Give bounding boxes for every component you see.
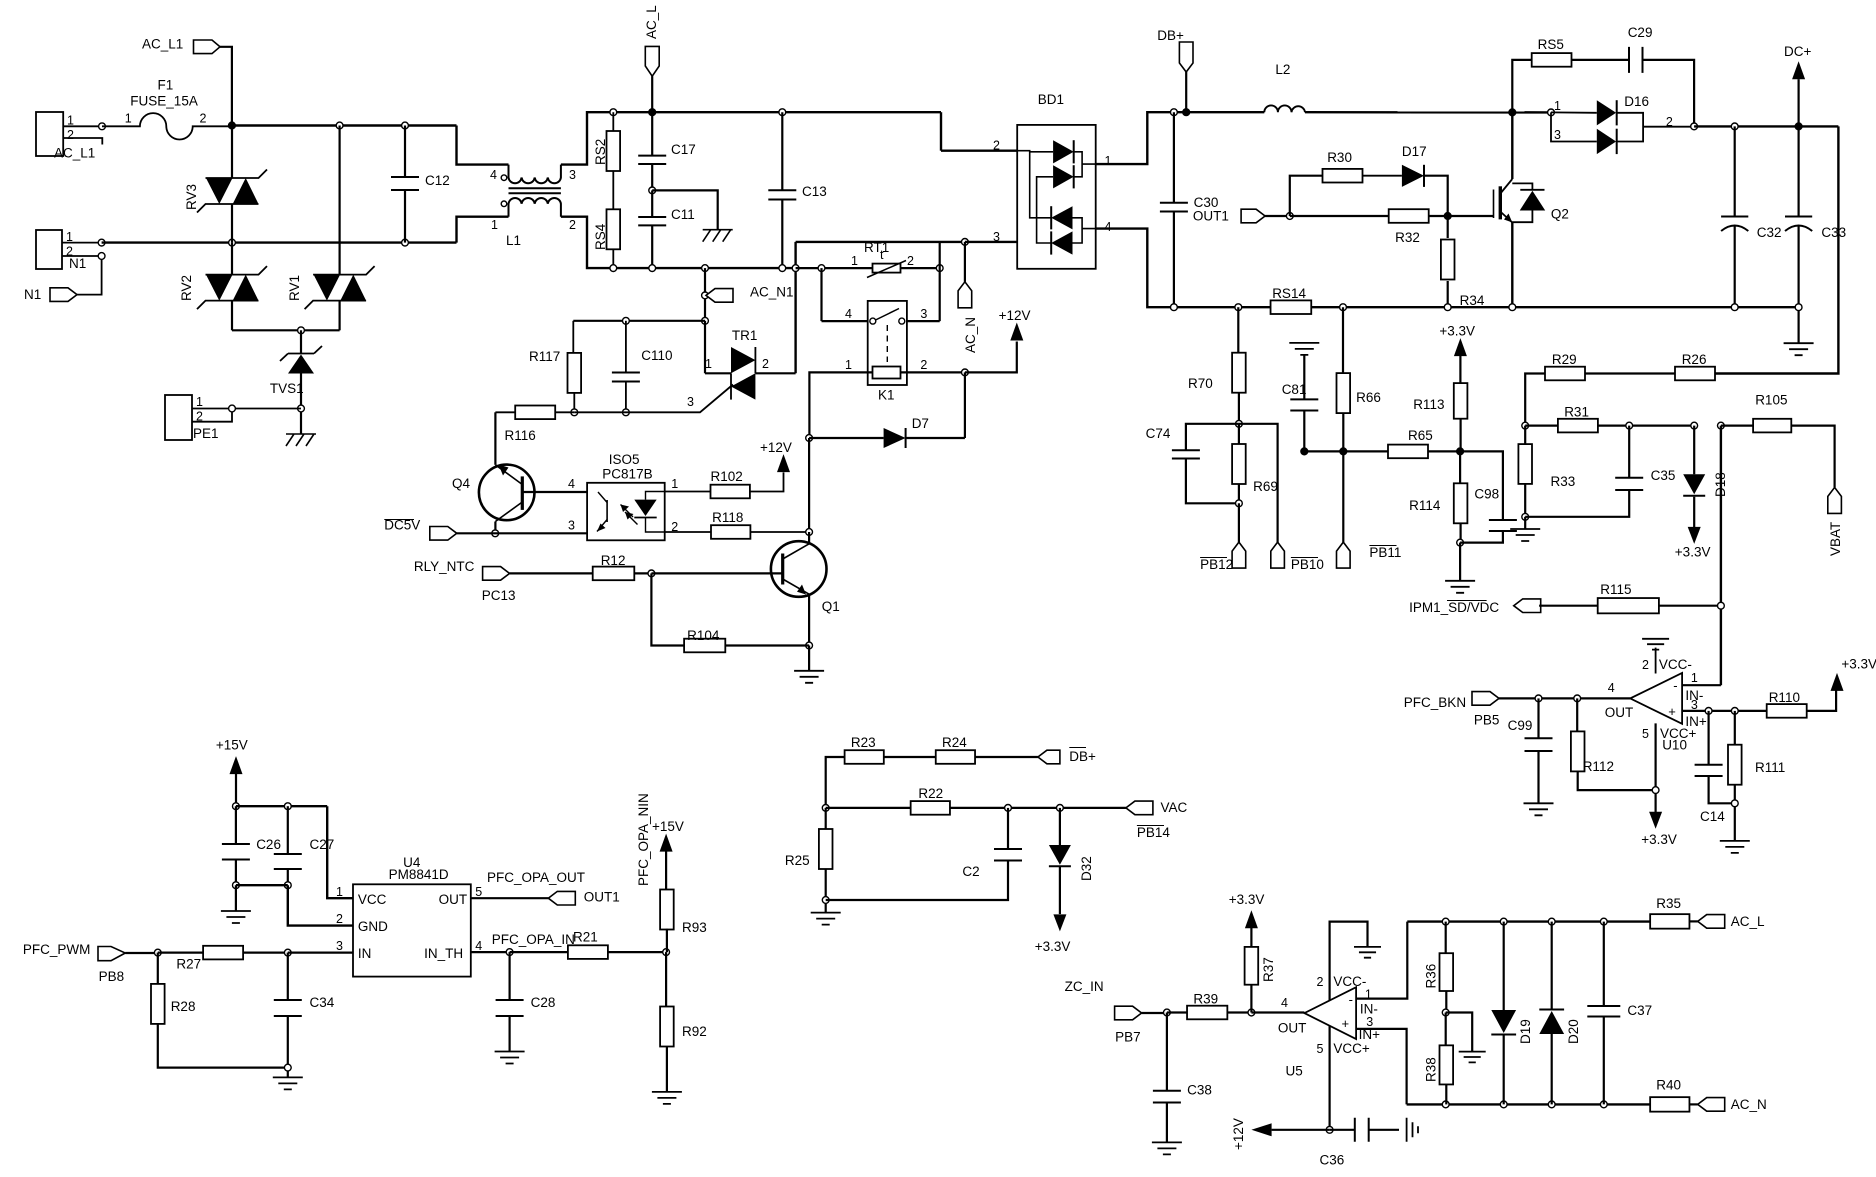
svg-text:5: 5 — [475, 885, 482, 899]
svg-text:R23: R23 — [851, 735, 876, 750]
junction VCC+/R112 — [1652, 787, 1659, 794]
wire C81 bottom — [1303, 411, 1305, 452]
junction C110 bottom — [623, 409, 630, 416]
wire C29 to DC+ rail — [1643, 60, 1695, 127]
wire TR1 pin1 — [705, 372, 731, 374]
junction R111/C14 — [1731, 800, 1738, 807]
junction C33/rail — [1795, 304, 1802, 311]
svg-text:OUT: OUT — [1605, 705, 1634, 720]
svg-text:+15V: +15V — [652, 819, 684, 834]
junction D18 top — [1691, 422, 1698, 429]
wire C26 to ground — [235, 885, 237, 911]
svg-text:VCC+: VCC+ — [1333, 1041, 1370, 1056]
ground C26 — [221, 911, 251, 923]
svg-text:OUT1: OUT1 — [584, 890, 620, 905]
wire +12V to VCC+ — [1272, 1129, 1330, 1131]
svg-text:R32: R32 — [1395, 230, 1420, 245]
earth ground — [286, 434, 316, 446]
wire DC+ rail — [1694, 125, 1838, 127]
wire to L1 pin4 — [457, 126, 509, 165]
resistor R110 — [1767, 704, 1807, 718]
wire DC+ to R26 — [1715, 126, 1839, 373]
flag VBAT — [1828, 487, 1842, 513]
resistor R34 — [1447, 216, 1449, 238]
svg-text:R31: R31 — [1564, 405, 1589, 420]
power flag AC_L1 (top) — [194, 40, 221, 54]
svg-text:C38: C38 — [1187, 1083, 1212, 1098]
resistor R12 — [510, 572, 593, 574]
capacitor C37 — [1603, 922, 1605, 1006]
junction C28/R21 — [506, 949, 513, 956]
svg-text:AC_L1: AC_L1 — [142, 37, 183, 52]
wire to ground — [1459, 543, 1461, 581]
wire to L1 pin1 — [457, 217, 509, 243]
wire RV3 bottom — [231, 204, 233, 243]
wire TVS1 to earth — [300, 374, 302, 435]
wire to RV2 — [231, 243, 233, 275]
junction DB+ — [1183, 109, 1190, 116]
svg-text:C99: C99 — [1508, 718, 1533, 733]
+12V arrow R102 — [777, 454, 790, 472]
resistor R39 — [1167, 1011, 1187, 1013]
IC U4 PM8841D — [353, 884, 471, 976]
ground R114 — [1445, 581, 1475, 593]
ground C33 — [1784, 343, 1814, 355]
wire connector pin1 to fuse — [63, 125, 102, 127]
svg-text:2: 2 — [569, 218, 576, 232]
wire AC_N1 branch — [704, 268, 706, 321]
diode BD1-d — [1051, 231, 1072, 254]
ground U5 VCC- — [1354, 947, 1381, 958]
svg-text:2: 2 — [336, 912, 343, 926]
wire Q4 collector — [494, 522, 496, 534]
flag AC_N — [958, 282, 972, 308]
svg-text:AC_L1: AC_L1 — [54, 146, 95, 161]
svg-text:4: 4 — [475, 939, 482, 953]
svg-text:RLY_NTC: RLY_NTC — [414, 559, 475, 574]
wire to earth — [652, 190, 718, 229]
svg-text:DB+: DB+ — [1069, 749, 1096, 764]
svg-text:1: 1 — [1105, 154, 1112, 168]
power flag AC_N1 — [706, 289, 733, 303]
junction N1 pin2 — [98, 253, 105, 260]
junction R66 top — [1340, 304, 1347, 311]
svg-text:1: 1 — [125, 112, 132, 126]
svg-text:RS4: RS4 — [593, 223, 608, 250]
junction C17/C11 — [649, 187, 656, 194]
wire U10 pin3 IN+ — [1682, 710, 1767, 712]
resistor R92 — [665, 952, 667, 1006]
svg-text:4: 4 — [1281, 996, 1288, 1010]
wire to Q1 base — [651, 572, 781, 574]
svg-text:AC_N: AC_N — [963, 317, 978, 353]
junction R115/IN- — [1718, 602, 1725, 609]
junction R114/C98 bottom — [1457, 539, 1464, 546]
wire U4 IN_TH — [471, 951, 510, 953]
+3.3V arrow down U10 — [1649, 812, 1662, 829]
wire U4 OUT — [471, 897, 549, 899]
svg-text:+12V: +12V — [999, 308, 1031, 323]
resistor R30 — [1290, 176, 1322, 216]
svg-text:3: 3 — [336, 939, 343, 953]
resistor R117 — [572, 321, 574, 353]
ground R33 — [1510, 529, 1540, 541]
svg-text:4: 4 — [568, 477, 575, 491]
flag PB12 — [1232, 542, 1246, 568]
svg-text:C35: C35 — [1651, 468, 1676, 483]
junction C11 bottom — [649, 265, 656, 272]
junction R36 top — [1442, 918, 1449, 925]
resistor R70 — [1237, 307, 1239, 352]
wire to D7 — [964, 372, 966, 438]
svg-text:R38: R38 — [1424, 1057, 1439, 1082]
svg-text:2: 2 — [200, 112, 207, 126]
wire to RV3 — [231, 126, 233, 179]
junction C27 top — [284, 803, 291, 810]
svg-text:RS5: RS5 — [1538, 37, 1564, 52]
resistor R21 — [510, 951, 568, 953]
svg-text:2: 2 — [1317, 975, 1324, 989]
optocoupler ISO5 PC817B — [587, 483, 665, 541]
svg-text:R33: R33 — [1551, 474, 1576, 489]
svg-text:TVS1: TVS1 — [270, 381, 304, 396]
wire connector pin2 stub — [63, 138, 102, 145]
wire BD1 pin3 — [965, 241, 1037, 243]
junction C32 top — [1731, 123, 1738, 130]
wire Q2 emitter — [1511, 223, 1513, 308]
flag AC_L — [1698, 915, 1725, 929]
wire to PB11 — [1342, 451, 1344, 542]
junction R34 bottom — [1444, 304, 1451, 311]
svg-text:+12V: +12V — [760, 440, 792, 455]
+3.3V arrow down D32 — [1053, 914, 1066, 931]
junction C29/D16 out — [1691, 123, 1698, 130]
diode D32 — [1059, 808, 1061, 845]
svg-text:R112: R112 — [1583, 759, 1614, 774]
svg-text:PB11: PB11 — [1369, 545, 1401, 560]
wire top rail to BD1 pin2 — [940, 112, 942, 151]
wire RS5 to C29 — [1572, 59, 1630, 61]
junction C81/R65 line — [1301, 448, 1308, 455]
junction R36/R38 — [1442, 1009, 1449, 1016]
junction C37 bottom — [1600, 1101, 1607, 1108]
wire BD1 pin4 / bottom DC rail — [1096, 229, 1799, 308]
svg-text:-: - — [1673, 678, 1677, 693]
svg-text:R27: R27 — [176, 957, 201, 972]
svg-text:2: 2 — [762, 357, 769, 371]
svg-text:R69: R69 — [1253, 479, 1278, 494]
junction R70 top — [1235, 304, 1242, 311]
svg-text:5: 5 — [1642, 727, 1649, 741]
inductor L2 — [1264, 105, 1305, 112]
svg-text:3: 3 — [1554, 128, 1561, 142]
junction C12 bottom — [402, 239, 409, 246]
junction AC_L1 node — [229, 122, 236, 129]
svg-text:AC_L: AC_L — [1731, 914, 1765, 929]
svg-text:2: 2 — [1666, 115, 1673, 129]
svg-text:K1: K1 — [878, 388, 895, 403]
wire U5 pin1 IN- — [1356, 922, 1407, 999]
+12V arrow — [1010, 323, 1023, 341]
svg-text:5: 5 — [1317, 1042, 1324, 1056]
svg-text:PB12: PB12 — [1200, 557, 1233, 572]
resistor R36 — [1445, 922, 1447, 954]
svg-text:C81: C81 — [1282, 382, 1307, 397]
resistor R40 — [1650, 1097, 1689, 1112]
top rail AC sense — [1407, 920, 1650, 922]
capacitor C38 — [1166, 1013, 1168, 1091]
svg-text:+: + — [1668, 704, 1676, 719]
flag OUT1 — [1241, 209, 1265, 223]
svg-text:OUT1: OUT1 — [1193, 209, 1229, 224]
wire DB+ stem — [1185, 72, 1187, 112]
flag PB11 — [1337, 542, 1351, 568]
svg-text:R110: R110 — [1769, 690, 1800, 705]
flag AC_N — [1698, 1098, 1725, 1112]
wire AC_L1 flag to node — [220, 47, 232, 126]
svg-text:F1: F1 — [158, 78, 174, 93]
svg-text:2: 2 — [907, 254, 914, 268]
svg-text:C33: C33 — [1821, 225, 1846, 240]
svg-text:VCC-: VCC- — [1333, 974, 1366, 989]
junction R69 bottom — [1236, 500, 1243, 507]
connector PE1 (J) — [165, 395, 192, 440]
connector AC_L1 (J) — [36, 112, 63, 156]
svg-text:C36: C36 — [1320, 1153, 1345, 1168]
svg-text:PFC_PWM: PFC_PWM — [23, 942, 91, 957]
svg-text:2: 2 — [1642, 658, 1649, 672]
wire C81 top — [1303, 355, 1305, 399]
wire RS2-RS4 — [612, 171, 614, 210]
svg-text:C32: C32 — [1757, 225, 1782, 240]
svg-text:PM8841D: PM8841D — [389, 867, 449, 882]
svg-text:VCC-: VCC- — [1659, 657, 1692, 672]
diode D17 — [1402, 165, 1424, 187]
svg-text:+3.3V: +3.3V — [1675, 545, 1711, 560]
power +3.3V (R110) — [1807, 689, 1836, 711]
wire Q4 base to ISO5 pin4 — [522, 491, 587, 493]
wire RV1 bottom — [339, 301, 341, 331]
svg-text:R12: R12 — [601, 553, 626, 568]
junction R31 left — [1522, 422, 1529, 429]
svg-text:1: 1 — [336, 885, 343, 899]
wire Q1 to ground — [808, 646, 810, 671]
junction R37 — [1248, 1009, 1255, 1016]
triac TR1 — [731, 347, 755, 373]
svg-text:R104: R104 — [687, 628, 720, 643]
wire N1 pin2 to flag — [62, 256, 102, 295]
wire PE1 pin1 to TVS1 — [192, 408, 301, 410]
wire ZC_IN — [1142, 1012, 1167, 1014]
wire R116 to Q4 emitter — [494, 412, 496, 465]
svg-text:RS14: RS14 — [1272, 286, 1306, 301]
capacitor C98 — [1460, 451, 1503, 520]
flag PB10 — [1271, 542, 1285, 568]
svg-text:4: 4 — [1105, 220, 1112, 234]
wire U10 output — [1499, 697, 1630, 699]
junction Q4/DC5V — [492, 530, 499, 537]
svg-text:IN: IN — [358, 946, 372, 961]
ground C81 — [1289, 343, 1319, 355]
flag DB+ — [1179, 42, 1193, 72]
svg-text:Q1: Q1 — [822, 599, 840, 614]
svg-text:+3.3V: +3.3V — [1035, 939, 1071, 954]
wire TR1 pin2 vertical — [794, 242, 796, 373]
capacitor C2 — [1007, 808, 1009, 849]
junction R93/R92/R21 — [663, 949, 670, 956]
svg-text:-: - — [1349, 992, 1353, 1007]
wire N1 pin1 — [62, 242, 102, 244]
junction R105/IN- node — [1718, 422, 1725, 429]
svg-text:1: 1 — [1691, 671, 1698, 685]
svg-text:VAC: VAC — [1161, 800, 1188, 815]
svg-text:+3.3V: +3.3V — [1641, 832, 1677, 847]
wire to PB12 — [1238, 503, 1240, 542]
body diode Q2 — [1512, 183, 1544, 222]
transistor Q4 — [479, 465, 535, 521]
svg-text:Q2: Q2 — [1551, 207, 1569, 222]
wire RV2 bottom — [231, 301, 233, 331]
svg-text:R111: R111 — [1755, 760, 1785, 775]
resistor R35 — [1650, 914, 1689, 929]
junction R70/C74/R69 — [1236, 420, 1243, 427]
wire U5 VCC- to ground — [1330, 922, 1368, 1000]
relay K1 — [868, 301, 907, 385]
junction C13 top — [779, 109, 786, 116]
wire Q1 collector — [808, 532, 810, 544]
junction C26 top — [233, 803, 240, 810]
ground C38 — [1152, 1142, 1182, 1154]
svg-text:3: 3 — [920, 307, 927, 321]
svg-text:D17: D17 — [1402, 144, 1427, 159]
capacitor C36 — [1330, 1129, 1355, 1131]
svg-text:AC_L: AC_L — [644, 5, 659, 39]
svg-text:D19: D19 — [1518, 1019, 1533, 1044]
svg-text:IPM1_SD/VDC: IPM1_SD/VDC — [1409, 600, 1499, 615]
ISO5 internals — [606, 500, 608, 522]
junction DC+ — [1795, 123, 1802, 130]
resistor R27 — [158, 951, 203, 953]
wire D17 to gate node — [1424, 176, 1448, 216]
svg-text:1: 1 — [671, 477, 678, 491]
junction RV1 top — [336, 122, 343, 129]
wire IN- node vertical — [1720, 426, 1722, 686]
svg-text:C12: C12 — [425, 173, 450, 188]
svg-text:C14: C14 — [1700, 809, 1725, 824]
svg-text:1: 1 — [851, 254, 858, 268]
junction D7 anode — [806, 435, 813, 442]
junction C14 — [1705, 708, 1712, 715]
svg-text:RV1: RV1 — [287, 275, 302, 301]
svg-text:R28: R28 — [171, 999, 196, 1014]
junction RS5/Q2 — [1509, 109, 1516, 116]
resistor R113 — [1454, 383, 1468, 419]
svg-text:R40: R40 — [1656, 1078, 1681, 1093]
wire R40 to flag — [1689, 1103, 1697, 1105]
wire U10 VCC+ to +3.3V — [1654, 723, 1656, 813]
wire flag to R115 — [1539, 605, 1598, 607]
svg-text:1: 1 — [705, 357, 712, 371]
junction C26 bottom — [233, 882, 240, 889]
junction C37 top — [1600, 918, 1607, 925]
svg-text:2: 2 — [920, 358, 927, 372]
capacitor C28 — [509, 952, 511, 1000]
resistor R33 — [1524, 426, 1526, 445]
svg-text:GND: GND — [358, 919, 388, 934]
svg-text:U10: U10 — [1662, 738, 1687, 753]
junction N1 pin1 — [98, 239, 105, 246]
diode BD1-c — [1051, 206, 1072, 229]
resistor R26 — [1675, 367, 1715, 381]
svg-text:1: 1 — [491, 218, 498, 232]
svg-text:+3.3V: +3.3V — [1439, 324, 1475, 339]
resistor R65 — [1304, 450, 1388, 452]
svg-text:AC_N1: AC_N1 — [750, 285, 794, 300]
svg-text:D16: D16 — [1624, 94, 1649, 109]
svg-text:PE1: PE1 — [193, 426, 219, 441]
svg-text:DC+: DC+ — [1784, 44, 1811, 59]
junction PE1 pins — [229, 405, 236, 412]
flag ZC_IN — [1115, 1006, 1142, 1020]
flag DC5V — [430, 527, 457, 541]
svg-text:L1: L1 — [506, 233, 521, 248]
capacitor C34 — [287, 953, 289, 1000]
svg-text:L2: L2 — [1275, 62, 1290, 77]
wire C12 top — [404, 126, 406, 178]
wire Q1 emitter — [808, 594, 810, 645]
wire top L rail — [232, 124, 457, 126]
svg-text:R24: R24 — [942, 735, 967, 750]
resistor R25 — [825, 808, 827, 829]
svg-text:VCC: VCC — [358, 892, 387, 907]
svg-text:PFC_OPA_OUT: PFC_OPA_OUT — [487, 870, 585, 885]
svg-text:4: 4 — [1608, 681, 1615, 695]
wire TR1 pin2 — [755, 372, 795, 374]
wire L2 to D16 node — [1305, 111, 1550, 114]
svg-text:Q4: Q4 — [452, 476, 471, 491]
svg-text:3: 3 — [993, 230, 1000, 244]
resistor R93 — [660, 890, 674, 930]
wire D16 pin1 — [1551, 111, 1597, 113]
power +12V (C36) — [1251, 1123, 1271, 1136]
svg-text:C37: C37 — [1627, 1003, 1652, 1018]
svg-text:D7: D7 — [912, 416, 929, 431]
wire to R117/C110 — [573, 320, 705, 322]
svg-text:OUT: OUT — [1278, 1021, 1307, 1036]
svg-text:R39: R39 — [1193, 992, 1218, 1007]
svg-text:2: 2 — [67, 128, 74, 142]
capacitor C27 — [287, 806, 289, 854]
ground R36/R38 — [1459, 1052, 1486, 1063]
wire L1 pin3 to top rail — [561, 112, 941, 164]
svg-text:AC_N: AC_N — [1731, 1097, 1767, 1112]
+15V arrow R93 — [660, 834, 673, 852]
wire BD1 pin1 to DB+ rail — [1096, 112, 1265, 164]
junction R12/R104 — [648, 570, 655, 577]
svg-text:+3.3V: +3.3V — [1841, 657, 1876, 672]
svg-text:N1: N1 — [69, 256, 86, 271]
svg-text:R29: R29 — [1552, 352, 1577, 367]
svg-text:FUSE_15A: FUSE_15A — [130, 94, 198, 109]
diode BD1-a — [1053, 140, 1074, 163]
resistor R114 — [1459, 451, 1461, 483]
svg-text:R65: R65 — [1408, 428, 1433, 443]
junction C99 — [1535, 695, 1542, 702]
resistor R104 — [651, 573, 684, 645]
junction C32 bottom — [1731, 304, 1738, 311]
junction Q2 gate node — [1444, 213, 1451, 220]
svg-text:IN_TH: IN_TH — [424, 946, 463, 961]
